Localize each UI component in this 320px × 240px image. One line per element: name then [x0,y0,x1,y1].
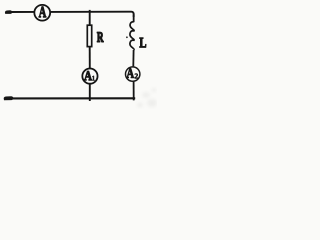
inductor L [130,22,134,50]
ammeter A circle [34,5,50,21]
terminal top-left [5,10,12,14]
ammeter A1 label A [84,71,92,80]
label R [97,32,104,42]
wire R branch bottom lead [89,84,91,101]
speck near coil [126,36,128,38]
ammeter A label [39,7,46,17]
ammeter A2 label A [127,69,134,78]
label L [140,38,147,47]
resistor R [87,25,91,46]
scan smudge bottom-right [137,88,157,108]
wire R branch middle lead [89,47,91,68]
wire R branch top lead [89,10,91,26]
ammeter A2 subscript 2 [135,74,138,79]
wire top-right segment [51,12,134,17]
ammeter A1 subscript 1 [92,76,94,81]
wire top-left segment [11,11,35,13]
wire L branch top lead [133,15,135,23]
ammeter A2 circle [126,67,140,81]
terminal bottom-left [4,96,14,100]
wire bottom [11,97,135,99]
wire L branch middle lead [132,50,134,66]
wire L branch bottom lead [133,82,135,101]
ammeter A1 circle [82,69,97,84]
